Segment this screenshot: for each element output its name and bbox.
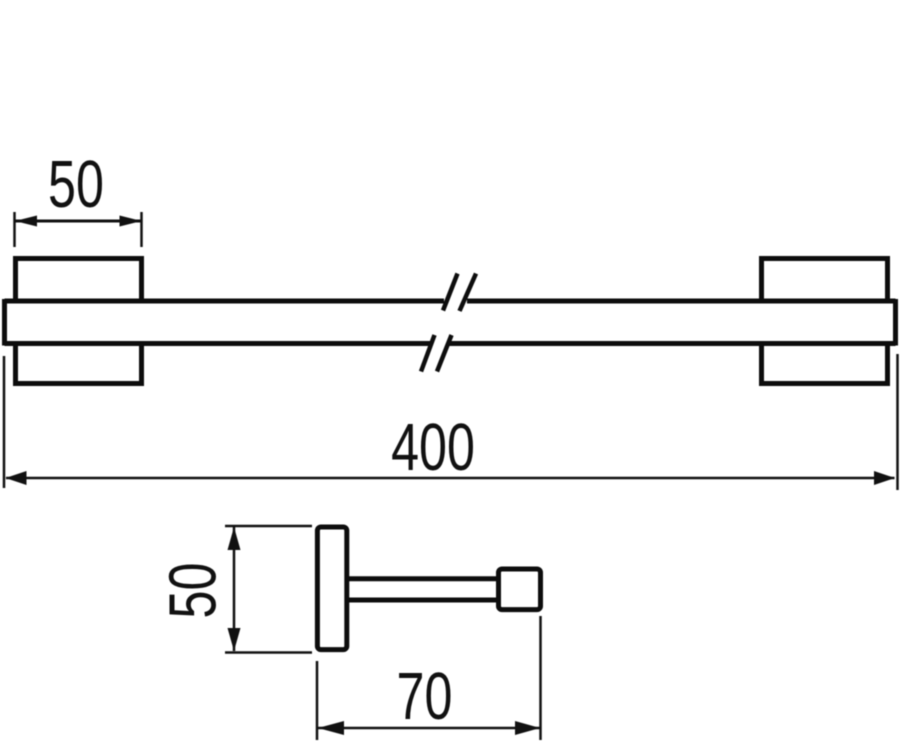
svg-text:50: 50 <box>154 563 230 619</box>
svg-text:50: 50 <box>48 146 104 222</box>
svg-text:400: 400 <box>391 409 475 485</box>
svg-text:70: 70 <box>397 658 453 734</box>
